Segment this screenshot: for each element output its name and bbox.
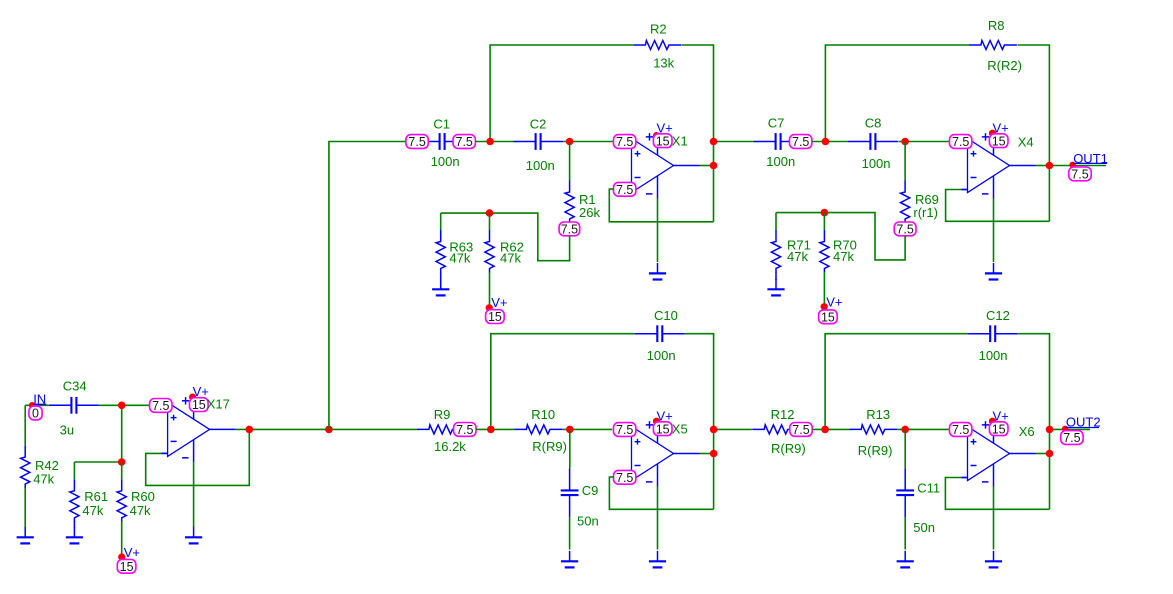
svg-text:7.5: 7.5 xyxy=(1063,431,1080,445)
svg-text:16.2k: 16.2k xyxy=(434,439,466,454)
svg-text:7.5: 7.5 xyxy=(616,135,633,149)
svg-text:7.5: 7.5 xyxy=(616,471,633,485)
svg-text:R61: R61 xyxy=(84,489,108,504)
svg-text:R13: R13 xyxy=(866,407,890,422)
svg-text:15: 15 xyxy=(821,310,835,324)
svg-text:C8: C8 xyxy=(865,116,882,131)
svg-text:15: 15 xyxy=(992,134,1006,148)
svg-text:7.5: 7.5 xyxy=(1071,168,1088,182)
svg-text:15: 15 xyxy=(992,422,1006,436)
svg-text:13k: 13k xyxy=(653,55,674,70)
svg-text:7.5: 7.5 xyxy=(896,223,913,237)
svg-text:R(R9): R(R9) xyxy=(858,443,893,458)
svg-text:7.5: 7.5 xyxy=(616,423,633,437)
svg-text:X5: X5 xyxy=(672,422,688,437)
svg-text:R60: R60 xyxy=(131,489,155,504)
svg-text:100n: 100n xyxy=(766,154,795,169)
svg-text:X6: X6 xyxy=(1019,424,1035,439)
svg-text:7.5: 7.5 xyxy=(456,423,473,437)
svg-text:15: 15 xyxy=(488,310,502,324)
svg-text:15: 15 xyxy=(120,560,134,574)
svg-text:V+: V+ xyxy=(491,295,507,310)
svg-text:X1: X1 xyxy=(672,134,688,149)
svg-text:R8: R8 xyxy=(988,18,1005,33)
svg-text:R9: R9 xyxy=(434,407,451,422)
svg-text:26k: 26k xyxy=(579,205,600,220)
svg-text:7.5: 7.5 xyxy=(616,183,633,197)
svg-text:50n: 50n xyxy=(577,514,599,529)
svg-text:V+: V+ xyxy=(826,294,842,309)
svg-text:r(r1): r(r1) xyxy=(913,205,938,220)
svg-text:C7: C7 xyxy=(768,116,785,131)
svg-text:C10: C10 xyxy=(654,308,678,323)
svg-text:R42: R42 xyxy=(35,458,59,473)
svg-text:100n: 100n xyxy=(647,348,676,363)
svg-text:7.5: 7.5 xyxy=(561,223,578,237)
svg-text:3u: 3u xyxy=(60,423,74,438)
svg-text:0: 0 xyxy=(32,407,39,421)
svg-text:R12: R12 xyxy=(771,407,795,422)
svg-text:C34: C34 xyxy=(63,378,87,393)
svg-text:47k: 47k xyxy=(500,251,521,266)
svg-text:R10: R10 xyxy=(531,407,555,422)
svg-text:7.5: 7.5 xyxy=(792,423,809,437)
svg-text:100n: 100n xyxy=(526,158,555,173)
svg-text:R(R9): R(R9) xyxy=(532,439,567,454)
svg-text:7.5: 7.5 xyxy=(408,135,425,149)
svg-text:100n: 100n xyxy=(431,154,460,169)
svg-text:V+: V+ xyxy=(124,545,140,560)
svg-text:50n: 50n xyxy=(913,520,935,535)
svg-text:47k: 47k xyxy=(82,503,103,518)
svg-text:C9: C9 xyxy=(582,483,599,498)
svg-text:47k: 47k xyxy=(33,472,54,487)
svg-text:15: 15 xyxy=(656,134,670,148)
svg-text:47k: 47k xyxy=(130,503,151,518)
svg-text:47k: 47k xyxy=(787,249,808,264)
svg-text:15: 15 xyxy=(192,398,206,412)
svg-text:C11: C11 xyxy=(917,481,940,496)
svg-text:7.5: 7.5 xyxy=(952,135,969,149)
svg-text:15: 15 xyxy=(656,422,670,436)
svg-text:47k: 47k xyxy=(449,251,470,266)
svg-text:7.5: 7.5 xyxy=(456,135,473,149)
svg-text:C2: C2 xyxy=(530,117,547,132)
svg-text:7.5: 7.5 xyxy=(152,399,169,413)
svg-text:C12: C12 xyxy=(986,308,1010,323)
svg-text:R(R2): R(R2) xyxy=(987,58,1022,73)
svg-text:X4: X4 xyxy=(1018,134,1034,149)
svg-text:R2: R2 xyxy=(650,21,667,36)
svg-text:R(R9): R(R9) xyxy=(771,441,806,456)
svg-text:7.5: 7.5 xyxy=(792,135,809,149)
svg-text:7.5: 7.5 xyxy=(952,423,969,437)
svg-text:C1: C1 xyxy=(433,117,450,132)
svg-text:47k: 47k xyxy=(833,249,854,264)
svg-text:X17: X17 xyxy=(207,397,230,412)
svg-text:100n: 100n xyxy=(979,348,1008,363)
svg-text:100n: 100n xyxy=(862,156,891,171)
